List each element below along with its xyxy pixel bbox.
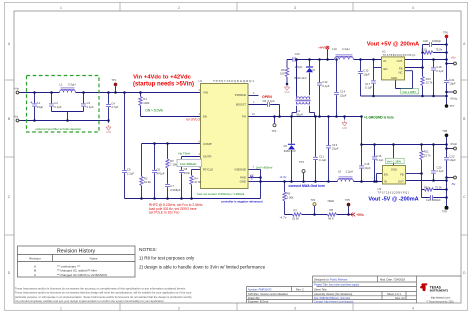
svg-text:GND: GND bbox=[342, 127, 348, 130]
svg-text:23.7k: 23.7k bbox=[426, 81, 433, 85]
svg-text:Engineer: B.Geck: Engineer: B.Geck bbox=[248, 300, 269, 304]
svg-text:1) R8 for test purposes only: 1) R8 for test purposes only bbox=[139, 256, 195, 261]
svg-text:L2: L2 bbox=[297, 109, 300, 113]
svg-text:+Vin: +Vin bbox=[14, 86, 20, 90]
svg-text:7.15k: 7.15k bbox=[170, 163, 177, 167]
svg-text:0.1µF: 0.1µF bbox=[437, 169, 444, 173]
svg-text:TP3: TP3 bbox=[299, 160, 304, 164]
svg-text:+HV0: +HV0 bbox=[318, 46, 326, 50]
svg-text:2mV +600mV: 2mV +600mV bbox=[256, 165, 273, 169]
svg-text:NC: NC bbox=[398, 70, 402, 74]
svg-text:0.1µF: 0.1µF bbox=[436, 69, 443, 73]
svg-text:C10: C10 bbox=[295, 52, 300, 56]
svg-text:VIN: VIN bbox=[203, 91, 208, 95]
svg-text:PH: PH bbox=[242, 115, 246, 119]
svg-text:C20: C20 bbox=[423, 39, 428, 43]
svg-text:-Vin: -Vin bbox=[14, 115, 19, 119]
svg-text:33µF: 33µF bbox=[37, 105, 44, 109]
svg-text:INSTRUMENTS: INSTRUMENTS bbox=[430, 289, 449, 293]
svg-text:© Texas Instruments, 2018: © Texas Instruments, 2018 bbox=[426, 301, 454, 304]
svg-text:22µF: 22µF bbox=[340, 94, 347, 98]
svg-text:controller is negative referen: controller is negative referenced bbox=[221, 199, 263, 203]
svg-text:0Vdc: 0Vdc bbox=[451, 142, 458, 146]
svg-text:0.1µF: 0.1µF bbox=[376, 158, 383, 162]
svg-text:GND: GND bbox=[391, 76, 397, 80]
svg-text:Assembly Variant: [No Variatio: Assembly Variant: [No Variations] bbox=[314, 292, 353, 296]
svg-text:(startup needs >5Vin): (startup needs >5Vin) bbox=[133, 82, 194, 88]
svg-text:TP1: TP1 bbox=[112, 78, 117, 82]
svg-text:0.1µF: 0.1µF bbox=[322, 84, 329, 88]
svg-text:TP6: TP6 bbox=[443, 30, 448, 34]
svg-text:TP9: TP9 bbox=[442, 209, 447, 213]
svg-text:3: 3 bbox=[294, 306, 296, 310]
svg-text:IN: IN bbox=[384, 180, 387, 184]
svg-text:10µF: 10µF bbox=[449, 158, 456, 162]
svg-text:2.2µH: 2.2µH bbox=[346, 170, 354, 174]
svg-text:NWA: NWA bbox=[328, 199, 335, 203]
svg-text:0.1µF: 0.1µF bbox=[87, 105, 94, 109]
svg-text:0.1µF: 0.1µF bbox=[365, 86, 372, 90]
svg-text:Number: PMP30473: Number: PMP30473 bbox=[248, 287, 272, 291]
svg-text:22µF: 22µF bbox=[332, 147, 339, 151]
svg-text:4.7µF: 4.7µF bbox=[111, 105, 118, 109]
svg-text:L9: L9 bbox=[338, 170, 342, 174]
svg-text:Vout +5V @ 200mA: Vout +5V @ 200mA bbox=[367, 41, 420, 47]
svg-text:GND: GND bbox=[284, 91, 290, 94]
svg-text:0.068µF: 0.068µF bbox=[170, 188, 181, 192]
svg-text:-5v: -5v bbox=[451, 182, 456, 186]
svg-text:Sheet Title:: Sheet Title: bbox=[314, 287, 327, 291]
svg-text:EN: EN bbox=[384, 173, 388, 177]
svg-text:B160-13-F: B160-13-F bbox=[295, 76, 308, 80]
svg-text:2: 2 bbox=[178, 6, 180, 10]
svg-text:3.3µH: 3.3µH bbox=[68, 83, 76, 87]
svg-text:49.9k: 49.9k bbox=[144, 180, 151, 184]
svg-text:1: 1 bbox=[60, 6, 62, 10]
svg-text:+5v: +5v bbox=[451, 56, 457, 60]
svg-text:Project Title: low noise dual: Project Title: low noise dual bias suppl… bbox=[314, 282, 360, 286]
svg-text:56µH: 56µH bbox=[296, 113, 303, 117]
svg-text:no UVLO: no UVLO bbox=[186, 118, 201, 122]
svg-text:R8: R8 bbox=[330, 208, 334, 212]
svg-text:EN: EN bbox=[203, 115, 207, 119]
svg-text:C18: C18 bbox=[364, 162, 369, 166]
svg-text:10µF: 10µF bbox=[363, 72, 370, 76]
svg-text:U2: U2 bbox=[382, 49, 386, 53]
svg-text:100k: 100k bbox=[143, 101, 150, 105]
svg-text:Notes: Notes bbox=[90, 256, 98, 260]
svg-text:ON > 5.0Vin: ON > 5.0Vin bbox=[145, 108, 163, 112]
svg-text:0.1µF: 0.1µF bbox=[54, 105, 61, 109]
svg-text:IN: IN bbox=[384, 59, 387, 63]
svg-text:0.1µF: 0.1µF bbox=[319, 158, 326, 162]
svg-text:Rev: C: Rev: C bbox=[296, 287, 304, 291]
svg-text:U1: U1 bbox=[199, 79, 203, 83]
svg-text:set POLE to 10x Fco: set POLE to 10x Fco bbox=[149, 211, 180, 215]
svg-text:Size: A4: Size: A4 bbox=[395, 296, 405, 300]
svg-text:RT/CLK: RT/CLK bbox=[203, 168, 213, 172]
svg-text:http://www.ti.com: http://www.ti.com bbox=[431, 295, 451, 299]
svg-text:Mod. Date: 7/24/2018: Mod. Date: 7/24/2018 bbox=[380, 277, 406, 281]
svg-text:Vin +4Vdc to +42Vdc: Vin +4Vdc to +42Vdc bbox=[133, 74, 192, 80]
svg-text:Texas Instruments and/or its l: Texas Instruments and/or its licensors d… bbox=[15, 291, 192, 295]
svg-text:PWRGD: PWRGD bbox=[235, 93, 246, 97]
svg-text:C20: C20 bbox=[437, 166, 442, 170]
svg-text:100: 100 bbox=[280, 71, 285, 75]
svg-text:B160-13-F: B160-13-F bbox=[284, 149, 297, 153]
svg-text:R12: R12 bbox=[424, 185, 429, 189]
svg-text:Designed for:: Designed for: bbox=[314, 277, 330, 281]
svg-text:2.00k: 2.00k bbox=[287, 195, 294, 199]
svg-text:TP2: TP2 bbox=[272, 129, 277, 133]
svg-text:Contact: http://www.ti.com/sup: Contact: http://www.ti.com/support bbox=[314, 300, 354, 304]
svg-text:Vout -5V @ -200mA: Vout -5V @ -200mA bbox=[368, 196, 418, 202]
svg-text:0.1µF: 0.1µF bbox=[268, 99, 275, 103]
svg-text:L1: L1 bbox=[60, 83, 64, 87]
svg-text:TP7: TP7 bbox=[450, 104, 455, 108]
svg-text:R6: R6 bbox=[281, 68, 285, 72]
svg-text:75.0k: 75.0k bbox=[436, 47, 443, 51]
svg-text:NOTES:: NOTES: bbox=[139, 247, 157, 253]
svg-text:Revision: Revision bbox=[29, 256, 41, 260]
svg-text:2: 2 bbox=[178, 306, 180, 310]
svg-text:TPS72301QDBVRQ1: TPS72301QDBVRQ1 bbox=[378, 191, 410, 195]
svg-text:***changed U2 CMOS to U2 BiCMO: ***changed U2 CMOS to U2 BiCMOS bbox=[57, 273, 107, 277]
svg-text:+1 GROUND is here: +1 GROUND is here bbox=[364, 115, 394, 119]
svg-text:Vref -1.186V: Vref -1.186V bbox=[387, 159, 402, 163]
svg-text:VSENSE: VSENSE bbox=[234, 168, 246, 172]
svg-text:max sw current 0.63Arms / 1.26: max sw current 0.63Arms / 1.26Apk bbox=[197, 192, 245, 196]
svg-text:OUT: OUT bbox=[397, 59, 403, 63]
svg-text:COMP: COMP bbox=[203, 142, 212, 146]
svg-text:TPS7B8250QDKXRQ1: TPS7B8250QDKXRQ1 bbox=[383, 53, 417, 57]
svg-text:49.9: 49.9 bbox=[328, 216, 334, 220]
svg-text:L10: L10 bbox=[332, 47, 337, 51]
svg-text:optional input filter w/ bulk: optional input filter w/ bulk capacitor bbox=[35, 127, 81, 131]
svg-text:SS/TR: SS/TR bbox=[203, 154, 212, 158]
svg-text:No TI/ref: No TI/ref bbox=[178, 152, 190, 156]
svg-text:BOOST: BOOST bbox=[236, 103, 246, 107]
svg-text:47.0k: 47.0k bbox=[194, 180, 201, 184]
svg-text:-4.7v: -4.7v bbox=[280, 215, 287, 219]
svg-text:R7: R7 bbox=[294, 209, 298, 213]
svg-text:1000pF: 1000pF bbox=[432, 39, 441, 43]
svg-text:Vref 1.185V: Vref 1.185V bbox=[402, 90, 416, 94]
svg-text:R10: R10 bbox=[422, 47, 427, 51]
svg-text:D2: D2 bbox=[312, 68, 316, 72]
svg-text:GND: GND bbox=[106, 131, 112, 134]
svg-text:FB: FB bbox=[400, 173, 404, 177]
svg-text:25.5k: 25.5k bbox=[292, 216, 299, 220]
svg-text:0Vdc: 0Vdc bbox=[451, 97, 458, 101]
svg-text:particular purpose, or will op: particular purpose, or will operate in a… bbox=[15, 295, 192, 299]
svg-text:Sheet 1 of 1: Sheet 1 of 1 bbox=[387, 292, 402, 296]
svg-text:3: 3 bbox=[294, 6, 296, 10]
svg-text:Revision History: Revision History bbox=[57, 249, 96, 255]
svg-text:10µF: 10µF bbox=[449, 82, 456, 86]
svg-text:4: 4 bbox=[412, 6, 414, 10]
svg-text:Drawn By:: Drawn By: bbox=[248, 296, 260, 300]
svg-text:2.2µH: 2.2µH bbox=[342, 47, 350, 51]
svg-text:10µF: 10µF bbox=[364, 166, 371, 170]
svg-text:EN: EN bbox=[384, 67, 388, 71]
svg-text:23.7k: 23.7k bbox=[424, 153, 431, 157]
svg-text:2) design is able to handle do: 2) design is able to handle down to 3Vin… bbox=[139, 264, 266, 269]
svg-text:1: 1 bbox=[60, 306, 62, 310]
svg-text:75.0k: 75.0k bbox=[435, 185, 442, 189]
svg-text:File: PMP30473RevC_Sch.Doc: File: PMP30473RevC_Sch.Doc bbox=[314, 296, 351, 300]
svg-text:TPS57160QDGQRQ1: TPS57160QDGQRQ1 bbox=[213, 79, 255, 83]
svg-text:4: 4 bbox=[412, 306, 414, 310]
svg-text:You should completely validate: You should completely validate and test … bbox=[15, 299, 165, 303]
svg-text:470pF: 470pF bbox=[295, 65, 303, 69]
svg-text:D1: D1 bbox=[284, 144, 288, 148]
svg-text:Texas Instruments and/or its l: Texas Instruments and/or its licensors d… bbox=[15, 287, 186, 291]
svg-text:SVN Rev: Version control disab: SVN Rev: Version control disabled bbox=[248, 292, 288, 296]
svg-text:GND: GND bbox=[240, 180, 246, 184]
svg-text:C24 1000pF: C24 1000pF bbox=[426, 198, 441, 202]
svg-text:C16: C16 bbox=[376, 154, 381, 158]
svg-text:TEXAS: TEXAS bbox=[430, 285, 442, 289]
svg-text:OUT: OUT bbox=[398, 180, 404, 184]
svg-text:U3: U3 bbox=[378, 187, 382, 191]
svg-text:33nF: 33nF bbox=[184, 171, 191, 175]
svg-text:C9: C9 bbox=[263, 99, 267, 103]
svg-text:connect NWA Gnd here: connect NWA Gnd here bbox=[289, 184, 326, 188]
svg-text:+5Vs: +5Vs bbox=[356, 213, 364, 217]
svg-text:TP4: TP4 bbox=[311, 198, 316, 202]
svg-text:2.2µF: 2.2µF bbox=[127, 171, 134, 175]
svg-text:GND: GND bbox=[391, 168, 397, 172]
svg-text:470pF: 470pF bbox=[157, 171, 165, 175]
svg-text:Fsw 300kHz: Fsw 300kHz bbox=[180, 162, 197, 166]
svg-text:TP8: TP8 bbox=[442, 129, 447, 133]
svg-text:TP5: TP5 bbox=[345, 198, 350, 202]
svg-text:Public Release: Public Release bbox=[330, 277, 348, 281]
svg-text:-0.3v: -0.3v bbox=[280, 175, 287, 179]
